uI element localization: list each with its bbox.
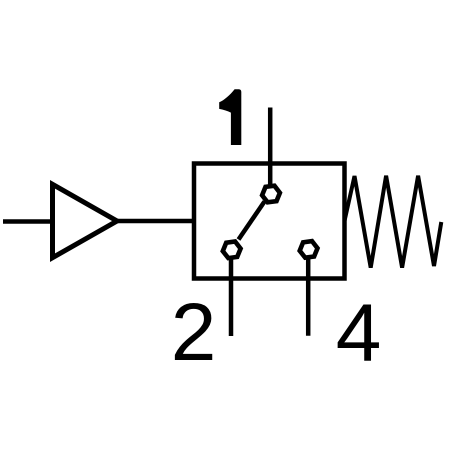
wire: port 1 lead bbox=[268, 108, 273, 186]
terminal 2 contact (hex) bbox=[223, 242, 241, 259]
contact arm (switch lever) bbox=[239, 202, 265, 240]
wire: pilot input line bbox=[3, 219, 53, 224]
terminal 1 contact (hex) bbox=[262, 186, 280, 203]
switch body (enclosure box) bbox=[194, 164, 345, 279]
amplifier U1 (pilot amplifier triangle) bbox=[53, 184, 118, 257]
terminal 4 contact (hex) bbox=[300, 241, 318, 258]
wire: port 4 lead bbox=[306, 257, 311, 336]
return spring bbox=[345, 176, 442, 268]
label: port 1 bbox=[219, 89, 241, 145]
wire: port 2 lead bbox=[229, 257, 234, 336]
svg-text:4: 4 bbox=[336, 288, 382, 379]
wire: amplifier output to switch body bbox=[117, 219, 194, 224]
svg-text:2: 2 bbox=[171, 287, 217, 378]
